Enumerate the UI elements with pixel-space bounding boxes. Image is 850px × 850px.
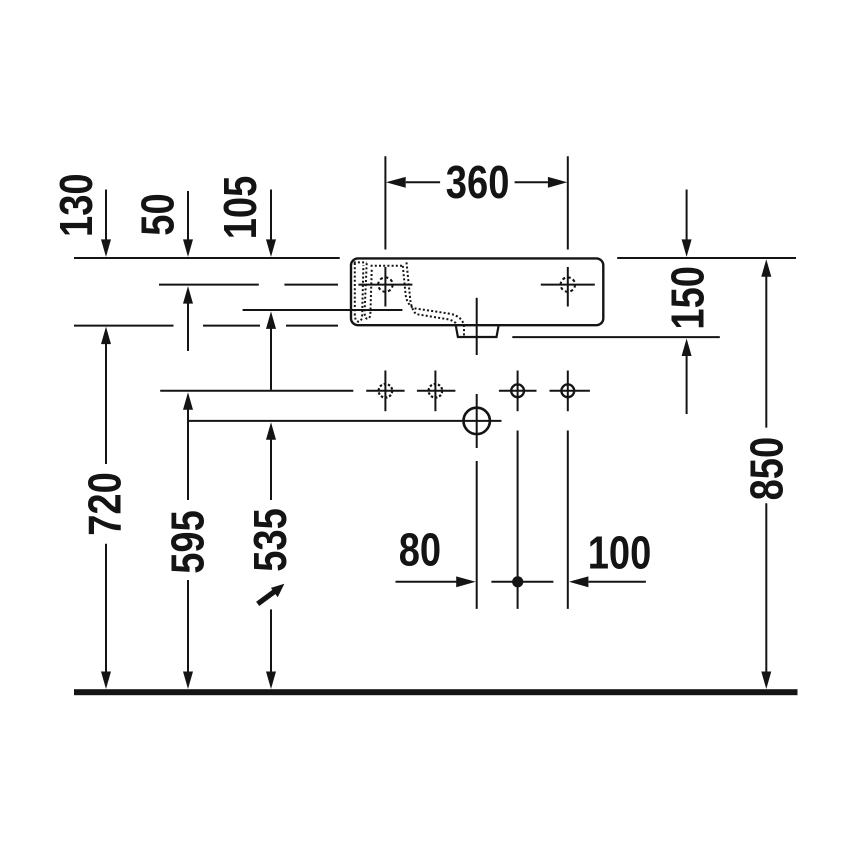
svg-text:535: 535 (246, 508, 297, 572)
svg-text:50: 50 (133, 193, 184, 235)
svg-text:595: 595 (163, 510, 214, 574)
svg-text:360: 360 (446, 158, 510, 209)
svg-text:100: 100 (588, 528, 652, 579)
svg-text:720: 720 (80, 472, 131, 536)
svg-text:105: 105 (216, 176, 267, 240)
svg-text:150: 150 (663, 266, 714, 330)
svg-text:130: 130 (52, 173, 103, 237)
svg-text:80: 80 (399, 525, 441, 576)
svg-text:850: 850 (742, 437, 793, 501)
